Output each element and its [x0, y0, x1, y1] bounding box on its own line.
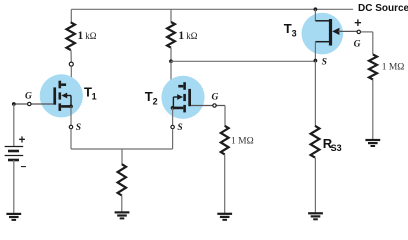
junction dot: T1 source/body: [69, 105, 73, 109]
wire: common source horizontal rail: [71, 148, 173, 150]
wire: RS to ground: [121, 196, 123, 212]
wire: T2 S terminal down to common source rail: [172, 129, 174, 149]
svg-text:G: G: [25, 92, 32, 102]
label R1 value 1 kOhm: [78, 30, 97, 42]
svg-text:2: 2: [153, 96, 158, 106]
wire: T1 gate lead: [16, 103, 54, 105]
wire: T3 source down to S node: [314, 42, 316, 61]
label R2 value 1 kOhm: [178, 30, 197, 42]
svg-text:1 MΩ: 1 MΩ: [231, 136, 254, 146]
wire: battery to ground: [13, 160, 15, 213]
wire: rail down to R1: [70, 9, 72, 22]
node: T1 source open terminal S: [69, 125, 72, 128]
highlight circle T2: [161, 76, 204, 119]
transistor T2 (MOSFET, mirrored): [172, 82, 191, 112]
wire: R2 down to junction: [170, 48, 172, 62]
svg-text:kΩ: kΩ: [186, 31, 198, 41]
node: T2 gate open terminal: [213, 104, 216, 107]
wire: RS3 to ground: [314, 158, 316, 213]
ground: input source: [6, 214, 21, 220]
transistor T1 (MOSFET): [53, 81, 72, 111]
wire: junction down and jog to T2 drain: [171, 61, 180, 85]
svg-text:1: 1: [178, 30, 184, 42]
junction dot: T2 drain node: [169, 59, 173, 63]
resistor RS (common source): [118, 164, 126, 195]
wire: rail dot down to T3 drain: [314, 9, 316, 20]
label + (gate input positive): [354, 16, 361, 30]
svg-text:+: +: [354, 16, 361, 30]
svg-text:G: G: [212, 92, 219, 102]
svg-text:1 MΩ: 1 MΩ: [382, 63, 405, 73]
label RG2 value 1 MOhm: [231, 136, 254, 146]
svg-text:+: +: [19, 135, 26, 147]
svg-text:1: 1: [92, 92, 97, 102]
wire: tap down to source resistor: [121, 149, 123, 164]
node: T3 gate open terminal: [357, 30, 360, 33]
wire: input corner down to battery: [13, 104, 15, 147]
svg-text:DC Source: DC Source: [358, 3, 408, 14]
junction dot: T3 source node: [314, 59, 318, 63]
wire: S terminal down to common source rail: [70, 129, 72, 149]
label G (T1 gate): [25, 92, 32, 102]
svg-text:G: G: [354, 39, 361, 49]
label S (T2 source): [177, 123, 182, 133]
label RS3: [323, 136, 342, 153]
svg-text:S: S: [76, 123, 81, 133]
resistor RS3: [311, 126, 320, 158]
svg-text:S: S: [177, 123, 182, 133]
wire: T2 drain node to T3 source node: [171, 60, 315, 62]
resistor RG3 1 MOhm: [369, 55, 377, 80]
wire: T1 source down to S terminal: [70, 106, 72, 125]
svg-text:T: T: [284, 21, 292, 36]
svg-text:1: 1: [78, 30, 84, 42]
wire: rail down to R2: [170, 9, 172, 22]
resistor R2 1 kOhm (drain of T2): [167, 22, 175, 48]
wire: T3 gate to terminal: [338, 30, 357, 32]
label RG3 value 1 MOhm: [382, 63, 405, 73]
highlight circle T1: [40, 74, 83, 117]
label G (T2 gate): [212, 92, 219, 102]
label T3: [284, 21, 297, 38]
label - (battery negative): [21, 162, 27, 173]
junction dot: input corner: [12, 102, 16, 106]
svg-text:T: T: [145, 89, 153, 104]
wire: gate node over and down to RG2: [224, 106, 226, 126]
battery V1: [5, 147, 24, 161]
wire: T2 gate lead: [191, 105, 225, 107]
wire: S node down to RS3: [314, 61, 316, 126]
node: open terminal above T1 drain: [69, 62, 73, 66]
label T2: [145, 89, 158, 106]
wire: RG3 to ground: [372, 80, 374, 140]
wire: T2 source down to S terminal: [172, 108, 174, 125]
wire: gate terminal to RG3: [361, 32, 373, 55]
svg-text:S: S: [322, 57, 327, 67]
wire: +V top supply rail: [71, 8, 353, 10]
label T1: [84, 85, 97, 102]
wire: node down and jog to T1 drain: [64, 66, 72, 83]
wire: R1 to node circle: [70, 50, 72, 62]
wire: RG2 to ground: [224, 154, 226, 213]
svg-text:3: 3: [292, 28, 297, 38]
label G (T3 gate): [354, 39, 361, 49]
junction dot: T2 source/body: [171, 106, 175, 110]
transistor T3 (JFET): [315, 19, 339, 46]
ground: common source: [115, 212, 130, 218]
node: T1 gate open terminal: [28, 102, 31, 105]
label S (T3 source): [322, 57, 327, 67]
resistor R1 1 kOhm (drain of T1): [67, 22, 75, 50]
label S (T1 source): [76, 123, 81, 133]
node: T2 source open terminal S: [171, 125, 174, 128]
label + (battery positive): [19, 135, 26, 147]
ground: RG3: [365, 140, 380, 146]
resistor RG2 1 MOhm: [221, 126, 229, 155]
highlight circle T3: [302, 13, 344, 55]
svg-text:−: −: [21, 162, 27, 173]
label DC Source: [358, 3, 408, 14]
ground: RS3: [308, 213, 323, 219]
ground: RG2: [217, 214, 232, 220]
svg-text:S3: S3: [331, 143, 342, 153]
junction dot: rail to T3 drain: [314, 7, 318, 11]
svg-text:kΩ: kΩ: [85, 31, 97, 41]
